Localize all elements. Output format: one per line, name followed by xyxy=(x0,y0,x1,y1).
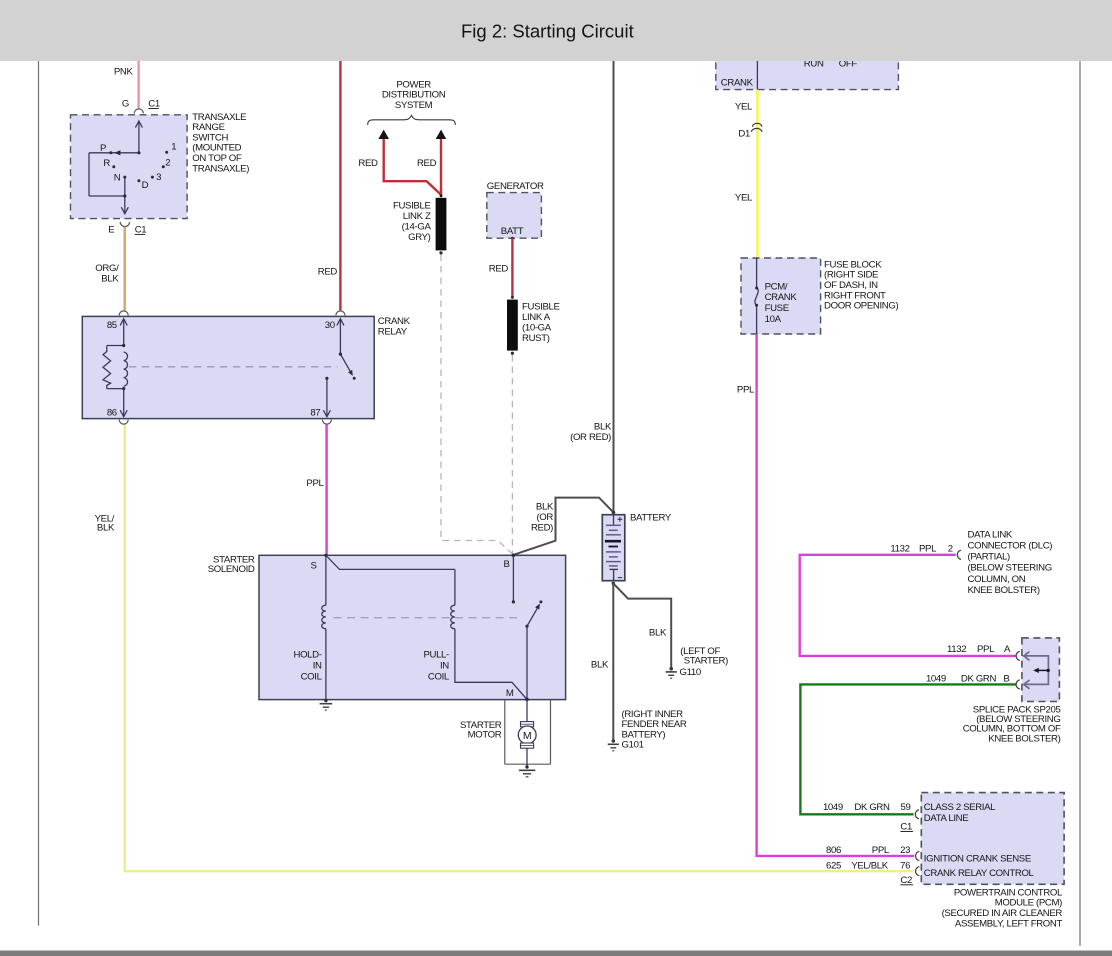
svg-text:806: 806 xyxy=(826,845,841,856)
svg-text:GRY): GRY) xyxy=(408,232,431,243)
wire RED (right branch into fusible link Z) xyxy=(440,139,442,197)
starter motor enclosure xyxy=(505,700,551,765)
svg-text:HOLD-: HOLD- xyxy=(293,649,321,660)
splice pack internals xyxy=(1024,652,1049,689)
svg-text:76: 76 xyxy=(900,860,910,871)
svg-text:SYSTEM: SYSTEM xyxy=(395,100,433,111)
svg-text:BATTERY): BATTERY) xyxy=(622,730,666,741)
svg-text:CONNECTOR (DLC): CONNECTOR (DLC) xyxy=(968,541,1053,552)
svg-text:C2: C2 xyxy=(900,875,912,886)
svg-text:IGNITION CRANK SENSE: IGNITION CRANK SENSE xyxy=(924,854,1031,865)
dashed wire from fusible link A to node B xyxy=(511,355,513,554)
svg-text:2: 2 xyxy=(165,158,170,169)
crank relay box xyxy=(82,316,374,418)
svg-text:BATT: BATT xyxy=(501,226,524,237)
wire BLK (OR RED) battery + to solenoid B xyxy=(514,498,614,555)
power distribution system label xyxy=(382,79,446,110)
contact labels P R N D 1 2 3 xyxy=(100,142,176,192)
svg-text:1132: 1132 xyxy=(947,644,966,655)
svg-text:G: G xyxy=(122,99,129,110)
svg-text:2: 2 xyxy=(948,543,953,554)
pin 76 connector xyxy=(916,867,920,876)
label HOLD-IN COIL xyxy=(293,649,322,682)
arrow up (to power distribution, left) xyxy=(378,130,389,139)
svg-text:Fig 2: Starting Circuit: Fig 2: Starting Circuit xyxy=(461,21,634,42)
bottom scrollbar xyxy=(0,951,1112,956)
svg-text:PPL: PPL xyxy=(737,384,755,395)
fuse block caption xyxy=(824,259,898,311)
svg-text:PNK: PNK xyxy=(114,67,134,78)
svg-text:DATA LINK: DATA LINK xyxy=(968,529,1013,540)
solenoid linkage dashed xyxy=(334,617,521,619)
wire PPL from fuse block to PCM pin 23 xyxy=(757,334,915,856)
pull-in coil xyxy=(326,555,527,699)
fuse PCM/CRANK FUSE 10A element xyxy=(755,258,758,334)
connector arc G/C1 xyxy=(134,109,143,114)
wire RED from top to relay 30 xyxy=(339,61,341,310)
PCM box xyxy=(921,793,1064,885)
svg-text:1: 1 xyxy=(171,142,176,153)
ground (solenoid internal) xyxy=(320,699,333,710)
wire RED (left branch into fusible link Z) xyxy=(384,139,441,195)
starter motor M symbol xyxy=(526,699,528,721)
svg-text:STARTER): STARTER) xyxy=(684,655,728,666)
transaxle switch internals xyxy=(89,121,142,214)
splice pack caption xyxy=(963,704,1061,744)
svg-text:COIL: COIL xyxy=(428,672,450,683)
starter solenoid box xyxy=(259,555,566,699)
svg-text:PPL: PPL xyxy=(306,478,324,489)
svg-text:TRANSAXLE): TRANSAXLE) xyxy=(192,163,249,174)
svg-text:SOLENOID: SOLENOID xyxy=(208,564,255,575)
connector D1 xyxy=(751,123,762,132)
svg-text:RED: RED xyxy=(417,158,437,169)
svg-text:C1: C1 xyxy=(148,99,160,110)
pin 59 connector xyxy=(915,810,919,819)
fusible link Z caption xyxy=(393,200,431,243)
solenoid switch contact from B xyxy=(512,555,514,602)
svg-text:CLASS 2 SERIAL: CLASS 2 SERIAL xyxy=(924,802,996,813)
pin A connector xyxy=(1016,651,1020,660)
relay pin labels xyxy=(107,320,335,419)
svg-text:N: N xyxy=(114,172,121,183)
svg-text:G101: G101 xyxy=(622,739,644,750)
transaxle range switch caption xyxy=(192,112,249,175)
page right border xyxy=(1079,61,1081,946)
label BLK (OR RED) lower xyxy=(531,502,554,534)
connector arc E/C1 xyxy=(120,222,129,227)
svg-text:D: D xyxy=(142,180,149,191)
svg-text:KNEE BOLSTER): KNEE BOLSTER) xyxy=(988,733,1060,744)
svg-text:ORG/: ORG/ xyxy=(95,263,119,274)
PCM caption xyxy=(942,887,1063,929)
wire ORG/BLK from transaxle E to relay 85 xyxy=(123,227,125,311)
svg-text:LINK Z: LINK Z xyxy=(403,211,431,222)
svg-text:BLK: BLK xyxy=(536,502,554,513)
wire BLK battery - branch to G110 xyxy=(613,583,671,668)
svg-text:COIL: COIL xyxy=(301,672,323,683)
svg-text:1049: 1049 xyxy=(823,802,843,813)
connector arc pin 85 xyxy=(119,311,128,316)
svg-text:C1: C1 xyxy=(900,822,912,833)
svg-text:M: M xyxy=(506,688,514,699)
svg-text:BLK: BLK xyxy=(97,523,115,534)
svg-text:3: 3 xyxy=(156,172,161,183)
svg-text:A: A xyxy=(1004,644,1011,655)
svg-text:625: 625 xyxy=(826,860,841,871)
svg-text:C1: C1 xyxy=(135,224,147,235)
svg-text:(10-GA: (10-GA xyxy=(522,323,552,334)
svg-text:YEL/BLK: YEL/BLK xyxy=(851,860,888,871)
ground (starter motor) xyxy=(519,765,535,777)
connector arc pin 30 xyxy=(336,311,345,316)
ignition switch (top right, clipped by header) xyxy=(716,38,899,90)
splice pack SP205 box xyxy=(1022,638,1060,702)
svg-text:PPL: PPL xyxy=(872,845,890,856)
svg-text:FUSE: FUSE xyxy=(765,303,789,314)
svg-text:(BELOW STEERING: (BELOW STEERING xyxy=(968,563,1052,574)
fusible link A caption xyxy=(522,301,560,344)
svg-text:DOOR OPENING): DOOR OPENING) xyxy=(824,301,898,312)
svg-text:PULL-: PULL- xyxy=(423,649,449,660)
connector arc pin 86 xyxy=(119,420,128,425)
header bar xyxy=(0,0,1112,61)
svg-text:30: 30 xyxy=(325,320,335,331)
wire DK GRN splice pack pin B to PCM pin 59 xyxy=(800,684,1016,814)
svg-text:ASSEMBLY, LEFT FRONT: ASSEMBLY, LEFT FRONT xyxy=(955,918,1063,929)
svg-text:G110: G110 xyxy=(680,667,701,678)
wire PNK at top left xyxy=(137,61,139,108)
svg-text:YEL: YEL xyxy=(735,101,753,112)
svg-text:1049: 1049 xyxy=(926,673,946,684)
svg-text:RED: RED xyxy=(318,267,338,278)
svg-text:CRANK: CRANK xyxy=(721,77,754,88)
svg-text:LINK A: LINK A xyxy=(522,312,551,323)
svg-text:IN: IN xyxy=(313,660,322,671)
svg-text:PCM/: PCM/ xyxy=(765,281,788,292)
svg-text:KNEE BOLSTER): KNEE BOLSTER) xyxy=(968,585,1040,596)
svg-text:RELAY: RELAY xyxy=(378,326,408,337)
wire RED generator to fusible link A xyxy=(511,238,513,297)
ground G101 xyxy=(608,739,619,751)
svg-text:BLK: BLK xyxy=(101,273,119,284)
svg-text:M: M xyxy=(523,730,532,742)
svg-text:PPL: PPL xyxy=(977,644,995,655)
svg-text:DK GRN: DK GRN xyxy=(961,673,997,684)
wire PPL DLC pin2 to splice pack pin A xyxy=(800,555,1016,656)
wire BLK (OR RED) from top to battery + xyxy=(613,61,615,512)
svg-text:(14-GA: (14-GA xyxy=(402,222,432,233)
wire YEL/BLK long run from relay 86 to PCM pin 76 xyxy=(125,424,914,871)
svg-text:DK GRN: DK GRN xyxy=(854,802,890,813)
svg-text:BLK: BLK xyxy=(591,660,609,671)
connector arc pin 87 xyxy=(322,420,331,425)
ground G110 xyxy=(666,667,677,678)
svg-text:S: S xyxy=(310,560,316,571)
fuse block box xyxy=(741,258,821,334)
generator box xyxy=(487,193,542,239)
junction dots and switch contacts xyxy=(109,151,168,198)
svg-text:DATA LINE: DATA LINE xyxy=(924,813,968,824)
svg-text:87: 87 xyxy=(310,408,320,419)
svg-text:BLK: BLK xyxy=(649,628,667,639)
arrow up (to power distribution, right) xyxy=(436,130,447,139)
wire M terminal xyxy=(526,626,528,699)
DLC caption xyxy=(968,529,1053,596)
wire BLK battery - to G101 xyxy=(612,582,616,586)
svg-text:IN: IN xyxy=(440,660,449,671)
svg-text:59: 59 xyxy=(901,802,911,813)
svg-text:D1: D1 xyxy=(738,128,750,139)
relay switch (pin 30 to 87) xyxy=(323,319,350,417)
svg-text:PPL: PPL xyxy=(919,543,937,554)
svg-text:RUST): RUST) xyxy=(522,333,550,344)
page left border xyxy=(38,61,40,926)
svg-text:P: P xyxy=(100,143,106,154)
svg-text:10A: 10A xyxy=(765,314,782,325)
transaxle range switch box xyxy=(71,115,188,219)
svg-text:FUSIBLE: FUSIBLE xyxy=(522,301,560,312)
svg-text:MOTOR: MOTOR xyxy=(468,730,502,741)
hold-in coil xyxy=(322,555,326,700)
relay linkage dashed xyxy=(129,366,338,368)
relay coil (pin 85 to 86) xyxy=(103,319,128,417)
svg-text:(PARTIAL): (PARTIAL) xyxy=(968,552,1010,563)
svg-text:B: B xyxy=(503,559,509,570)
svg-text:RED): RED) xyxy=(531,522,553,533)
solenoid switch blade xyxy=(527,608,537,626)
svg-text:86: 86 xyxy=(107,408,117,419)
wire YEL from ignition switch to fuse block xyxy=(756,90,758,258)
pin B connector xyxy=(1016,680,1020,689)
svg-text:85: 85 xyxy=(107,320,117,331)
svg-text:GENERATOR: GENERATOR xyxy=(487,181,544,192)
overbrace xyxy=(368,115,456,125)
svg-text:RED: RED xyxy=(358,158,378,169)
pin 2 connector xyxy=(957,550,961,559)
svg-text:CRANK: CRANK xyxy=(765,292,798,303)
svg-text:1132: 1132 xyxy=(890,543,909,554)
pin 23 connector xyxy=(916,851,920,860)
battery xyxy=(602,515,625,581)
svg-text:CRANK RELAY CONTROL: CRANK RELAY CONTROL xyxy=(924,868,1035,879)
svg-text:B: B xyxy=(1003,673,1009,684)
label PULL-IN COIL xyxy=(423,649,449,682)
svg-text:YEL: YEL xyxy=(735,192,753,203)
svg-text:(OR RED): (OR RED) xyxy=(570,432,611,443)
fusible link Z xyxy=(440,194,443,197)
svg-text:E: E xyxy=(108,224,114,235)
svg-text:23: 23 xyxy=(900,845,910,856)
svg-text:R: R xyxy=(103,158,110,169)
wire PPL from relay 87 to solenoid S xyxy=(325,424,327,555)
svg-text:FUSIBLE: FUSIBLE xyxy=(393,200,431,211)
svg-text:RED: RED xyxy=(489,264,509,275)
svg-text:BATTERY: BATTERY xyxy=(630,512,672,523)
dashed wire from fusible link Z to node B xyxy=(441,255,513,555)
svg-text:COLUMN, ON: COLUMN, ON xyxy=(968,574,1026,585)
fusible link A xyxy=(511,296,514,299)
